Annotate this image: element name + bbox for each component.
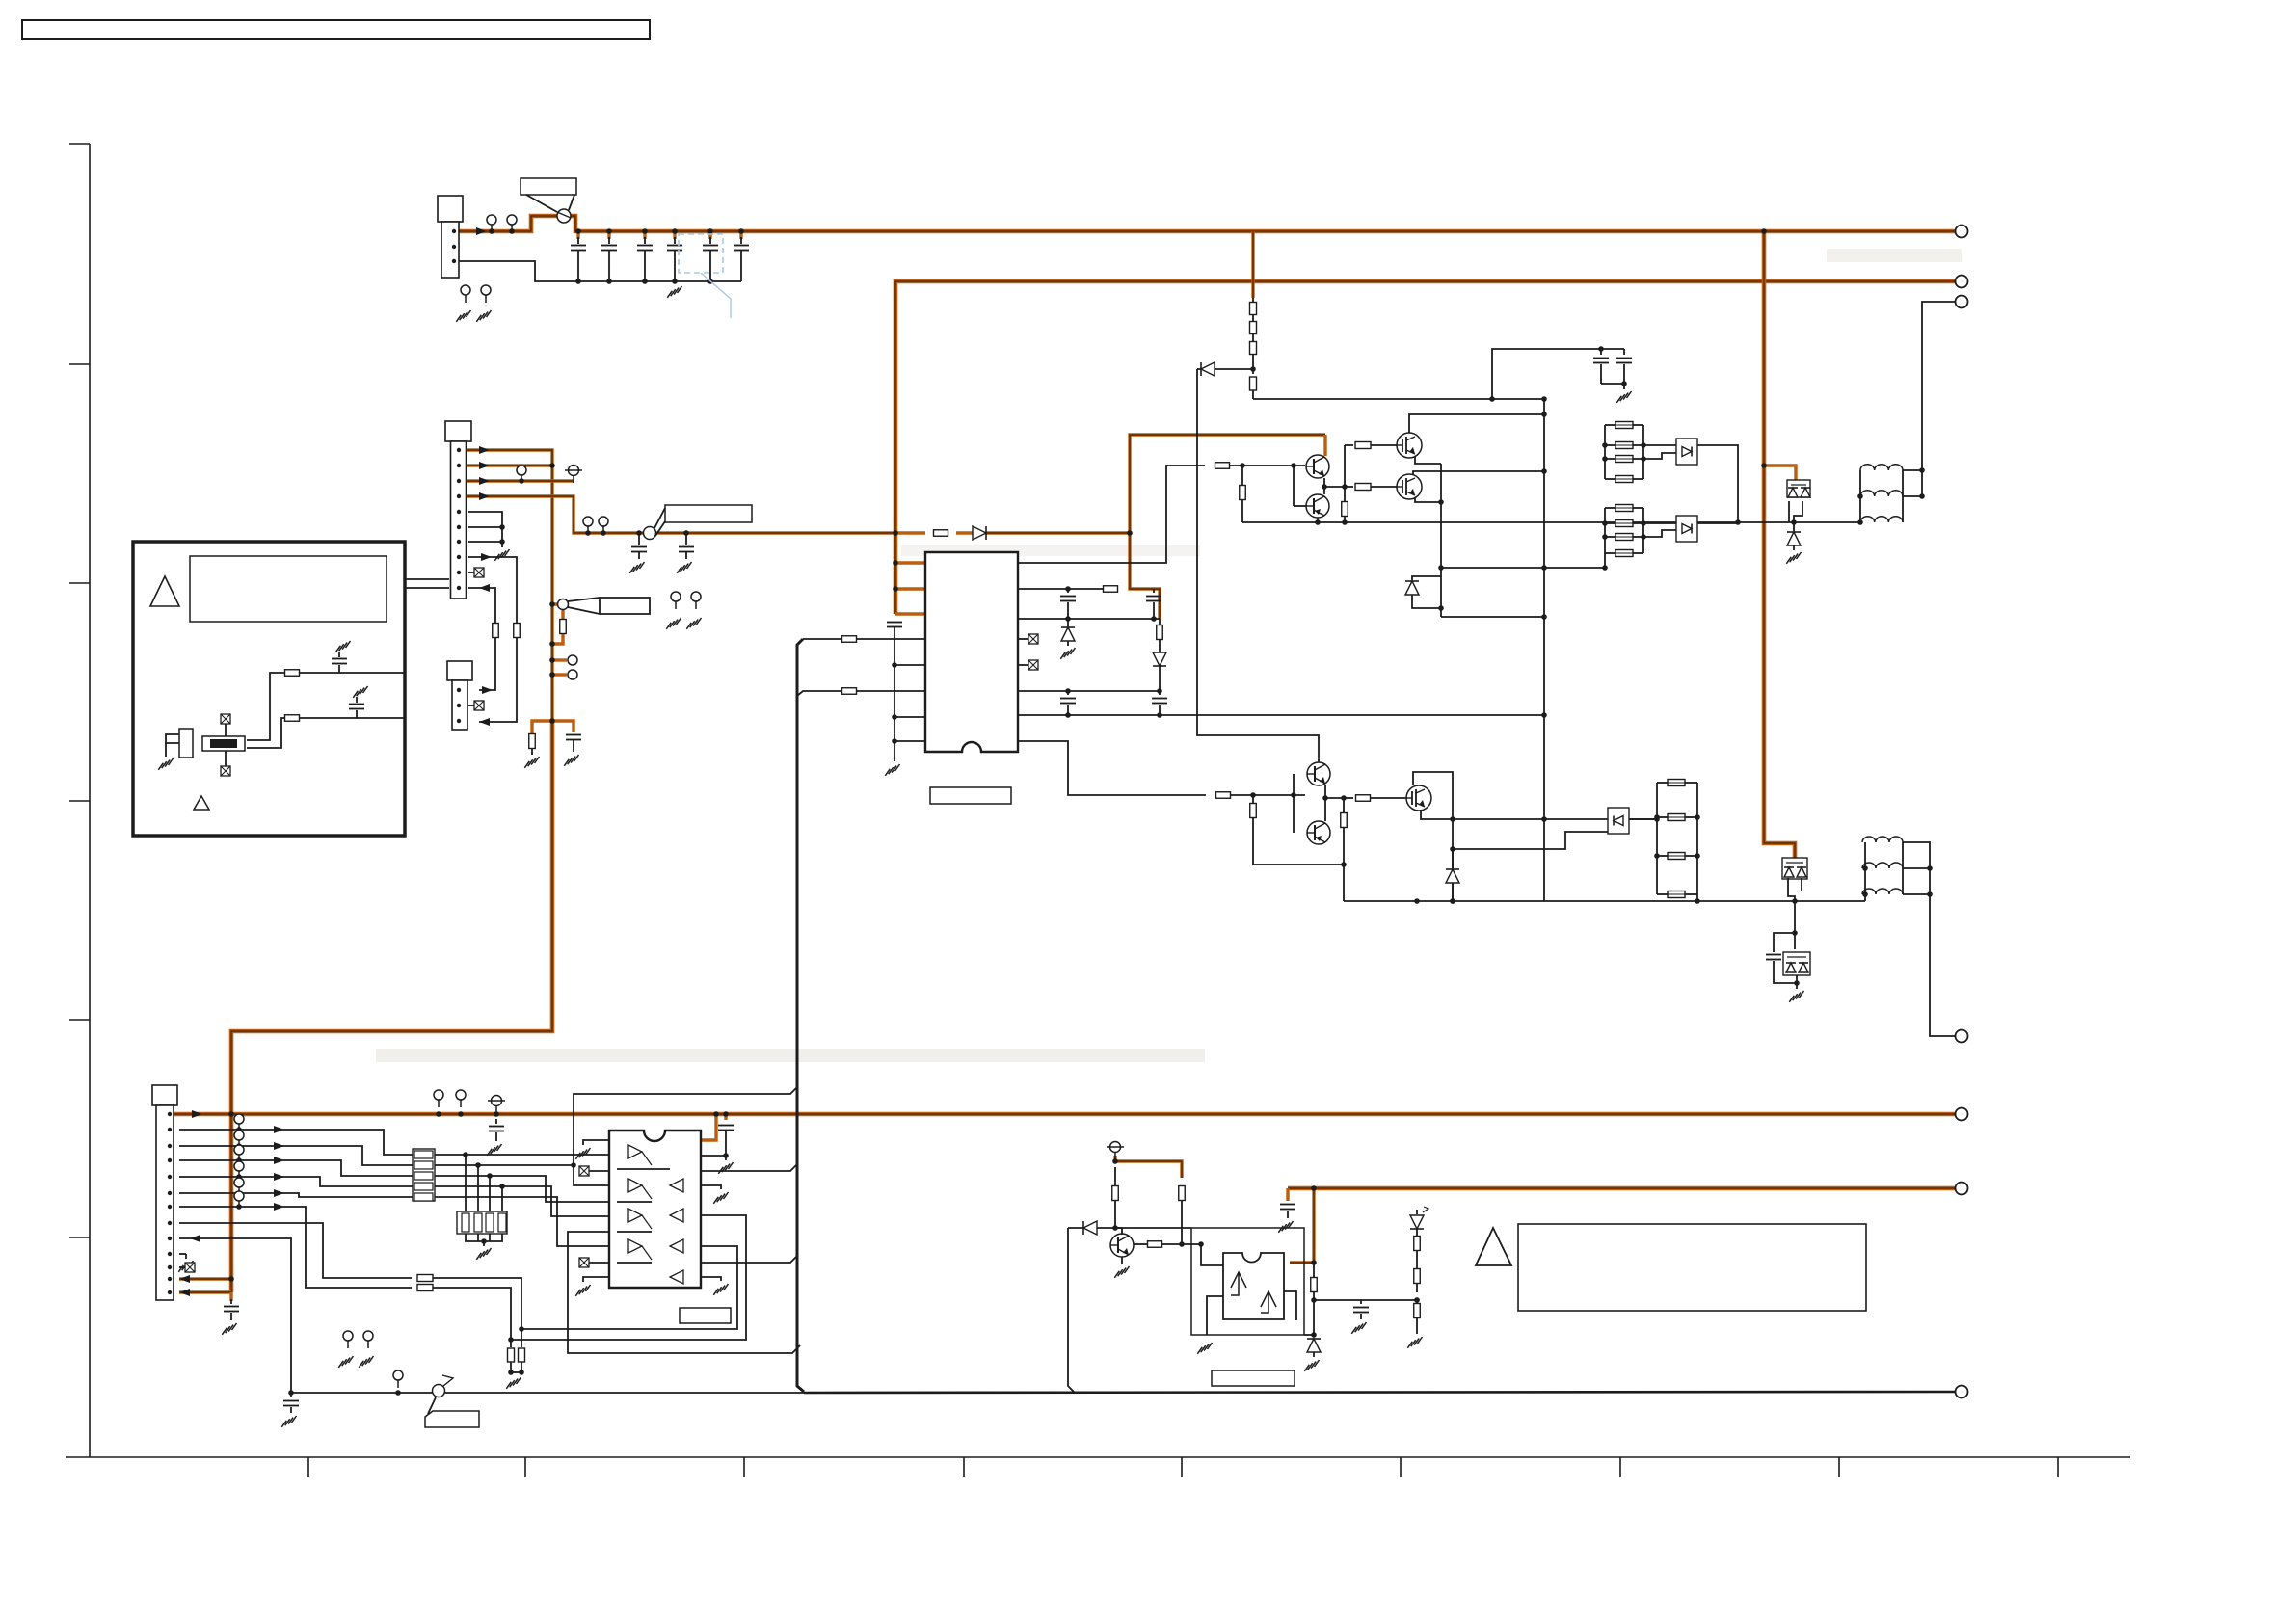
- wire opto3 out: [1629, 818, 1657, 820]
- resistor R203: [1215, 463, 1230, 469]
- coil T1-1: [1860, 465, 1903, 470]
- wire CN3 data1: [179, 1130, 413, 1155]
- gate rails: [617, 1168, 670, 1170]
- dot T2 L2: [1862, 891, 1868, 897]
- test point TP101: [487, 215, 496, 225]
- wire outer zener: [1304, 1334, 1314, 1336]
- pin CN2: [457, 704, 461, 707]
- wire wrap B: [701, 1164, 797, 1171]
- snubber2 R y543: [1605, 522, 1615, 524]
- dot junction x573 y483: [549, 463, 555, 468]
- wire snub to opto1: [1643, 444, 1676, 446]
- ground gnd bus: [667, 286, 681, 298]
- wire base2 b: [1231, 794, 1305, 796]
- arrow into pin10: [479, 584, 490, 592]
- arrow into pin9: [190, 1235, 200, 1242]
- dot out1199: [723, 1153, 729, 1158]
- transistor Q5: [1307, 762, 1330, 785]
- arrow data6: [274, 1203, 284, 1211]
- terminal black out: [1956, 296, 1968, 308]
- diode D202: [1067, 619, 1069, 626]
- pin CN1t-3: [452, 259, 456, 263]
- terminal T2 pin: [1956, 1030, 1968, 1043]
- igbt Q3: [1397, 433, 1422, 458]
- transistor Q2: [1306, 494, 1329, 518]
- dot T1 L: [1857, 493, 1863, 499]
- arrow sym U4a: [1231, 1272, 1246, 1295]
- capacitor C203: [1153, 589, 1155, 593]
- wire rn1 out4: [435, 1196, 540, 1198]
- dot pulldown: [499, 1184, 505, 1189]
- dot TPB403: [494, 1111, 499, 1117]
- wire q8 col: [1115, 1227, 1122, 1229]
- dot wrapF join: [519, 1326, 524, 1332]
- snubber2 dot R543: [1641, 520, 1646, 526]
- ground R402: [506, 1377, 521, 1389]
- border tick left: [69, 1237, 90, 1238]
- wire osc net1: [247, 673, 405, 740]
- resistor R304: [1252, 369, 1254, 374]
- resistor R110: [934, 530, 948, 537]
- test point TP105: [517, 466, 526, 475]
- wire igbt2 collector: [1413, 471, 1544, 474]
- dot cap pair: [1598, 346, 1604, 352]
- wire U1 pin744: [894, 716, 925, 718]
- snubber3 R y888: [1657, 855, 1668, 857]
- long vertical x1602: [1543, 399, 1545, 901]
- dot chain out: [1541, 396, 1547, 402]
- arrow data5: [274, 1189, 284, 1197]
- capacitor C122: [356, 710, 358, 718]
- wire CN1 pin10 net: [468, 588, 495, 690]
- wire T2 out: [1903, 842, 1956, 1036]
- pin CN1-1: [457, 448, 461, 452]
- resistor R406v: [1114, 1167, 1116, 1185]
- label F2 funnel: [654, 508, 665, 528]
- wire bottom net thick: [804, 1392, 1956, 1393]
- resistor R408: [1414, 1269, 1421, 1284]
- wire rn1 out1: [435, 1164, 540, 1166]
- test point TPc0: [234, 1114, 244, 1124]
- arrow CN1 orange pin: [479, 492, 490, 500]
- test point TPc3: [234, 1161, 244, 1171]
- capacitor C404: [290, 1393, 292, 1397]
- pin CN1t-1: [452, 229, 456, 233]
- ground CN3 pin10: [179, 1253, 186, 1255]
- dot y935 c: [1695, 898, 1700, 904]
- capacitor C301: [1600, 349, 1602, 355]
- snubber3 dot L848: [1654, 814, 1660, 820]
- coil T2-3: [1862, 889, 1903, 894]
- ground TP104: [476, 310, 491, 322]
- ic U2: [609, 1131, 701, 1288]
- border tick bottom: [2057, 1457, 2059, 1477]
- wire emitters q1q2: [1324, 478, 1345, 487]
- ghost text band mid: [901, 545, 1200, 556]
- ground D401: [1304, 1360, 1319, 1371]
- dot opto3 rail: [1654, 816, 1660, 822]
- resistor R401: [417, 1275, 433, 1282]
- test point TP109: [568, 655, 577, 665]
- wire IC supply stub1: [895, 561, 925, 564]
- dual diode D303: [1787, 480, 1810, 497]
- wire CN3 data5: [179, 1193, 413, 1197]
- label box warning: [1518, 1224, 1866, 1311]
- gate tri L 0: [670, 1179, 683, 1192]
- label box inside: [190, 556, 387, 622]
- wire wrap F: [521, 1246, 737, 1329]
- dot C101 bottom: [575, 279, 581, 284]
- gate tri L 1: [670, 1209, 683, 1222]
- wire igbt1 collector: [1409, 414, 1544, 433]
- dot fb: [1414, 1297, 1420, 1303]
- dot TP102: [509, 228, 515, 234]
- dot cap branch: [1489, 396, 1495, 402]
- ground TP111: [666, 618, 681, 629]
- ghost text band top-right: [1827, 249, 1962, 262]
- terminal orange B: [1956, 1108, 1968, 1121]
- wire CN1 pin2 orange: [459, 464, 552, 466]
- dot fuse cap1: [636, 530, 642, 536]
- pin CN1-10: [457, 586, 461, 590]
- wire diode line: [1068, 1227, 1191, 1229]
- capacitor C302: [1623, 349, 1625, 355]
- wire IC supply stub3: [895, 612, 925, 615]
- xbox CN1 pin9: [468, 572, 474, 573]
- rn2 element: [498, 1213, 506, 1232]
- test point TP401: [434, 1090, 443, 1100]
- pin CN3: [168, 1191, 172, 1195]
- wire U2 out1230 gnd: [701, 1185, 721, 1189]
- pin CN1-7: [457, 540, 461, 544]
- wire CN1t pin3 gnd bus: [459, 261, 741, 281]
- dot orange p12: [228, 1276, 234, 1282]
- ground TP112: [686, 618, 701, 629]
- dot C201 a: [892, 662, 897, 668]
- wire U1 717 right: [1018, 690, 1160, 692]
- xbox osc top: [221, 714, 230, 724]
- rn2 element: [462, 1213, 469, 1232]
- border tick bottom: [307, 1457, 309, 1477]
- snubber R y476: [1605, 458, 1615, 460]
- pin CN2: [457, 719, 461, 723]
- dot TPc3: [236, 1174, 242, 1180]
- ground C107: [629, 562, 644, 573]
- wire T2 out2: [1903, 867, 1930, 869]
- dot TP402: [458, 1111, 464, 1117]
- resistor R109: [493, 624, 499, 638]
- resistor R409: [1416, 1300, 1418, 1303]
- resistor R301: [1250, 303, 1257, 315]
- igbt Q7: [1406, 785, 1431, 811]
- gate tri R 0: [628, 1145, 642, 1158]
- arrow data4: [274, 1173, 284, 1181]
- transformer T2 rail L: [1864, 842, 1866, 901]
- transformer T1 rail L: [1859, 470, 1861, 522]
- wire dd2 to cluster: [1794, 901, 1796, 949]
- wire CN3 pin12 orange: [179, 1277, 231, 1280]
- rn1 element: [414, 1183, 433, 1190]
- test point TPB403: [492, 1096, 502, 1106]
- snubber dot R462: [1641, 442, 1646, 448]
- dot 742b: [1157, 712, 1162, 718]
- capacitor C121: [338, 665, 340, 673]
- capacitor C205: [1159, 691, 1161, 695]
- wire wrap A: [574, 1087, 797, 1185]
- ic sub U3: [179, 729, 193, 758]
- gate tri R 3: [628, 1239, 642, 1253]
- wire CN3 data6: [179, 1207, 412, 1288]
- resistor R406: [417, 1285, 433, 1291]
- transistor Q8: [1110, 1234, 1134, 1257]
- border tick bottom: [1400, 1457, 1402, 1477]
- dot y589 end: [1602, 565, 1608, 571]
- capacitor C108: [685, 533, 687, 545]
- resistor R404: [1148, 1241, 1162, 1248]
- wire y935 long: [1344, 900, 1865, 902]
- igbt Q4: [1397, 474, 1422, 499]
- dot y640: [1541, 614, 1547, 620]
- ground C109: [564, 755, 578, 766]
- dot tp orange: [1112, 1158, 1118, 1164]
- dot C102 bottom: [606, 279, 612, 284]
- wire U4 in: [1201, 1244, 1223, 1265]
- pin CN1-9: [457, 571, 461, 574]
- pin CN2: [457, 688, 461, 692]
- snubber dot L462: [1602, 442, 1608, 448]
- dot reg low: [1311, 1332, 1317, 1338]
- wire hexIC feed orange: [701, 1114, 716, 1140]
- rn2 element: [486, 1213, 494, 1232]
- wire rn1 out2: [435, 1175, 540, 1177]
- dot base1 r: [1240, 463, 1245, 468]
- border tick bottom: [743, 1457, 745, 1477]
- ground C201: [885, 764, 899, 776]
- dot C105 bottom: [707, 279, 713, 284]
- ground C401: [222, 1323, 236, 1335]
- wire cap branch: [1492, 349, 1624, 399]
- gate zig 0: [642, 1152, 652, 1165]
- snubber2 R y557: [1605, 536, 1615, 538]
- dot igbt3 881: [1450, 846, 1455, 852]
- dot pulldown: [487, 1173, 493, 1179]
- arrow data2: [274, 1142, 284, 1150]
- dot C104 bottom: [672, 279, 678, 284]
- pin CN3: [168, 1175, 172, 1179]
- border tick bottom: [1181, 1457, 1183, 1477]
- wire dd1 down: [1788, 501, 1790, 522]
- dot igbt2 col: [1541, 468, 1547, 474]
- test point TP112: [691, 592, 701, 601]
- dot y935 a: [1414, 898, 1420, 904]
- wire U1 base1 net: [1018, 466, 1205, 563]
- wire rail 15V orange: [1288, 1186, 1956, 1191]
- ground cap pair: [1623, 384, 1625, 389]
- zener D401: [1307, 1339, 1321, 1352]
- dot reg mid: [1311, 1297, 1317, 1303]
- resistor R122: [285, 715, 300, 722]
- connector CN1-top: [438, 196, 463, 222]
- wire CN3 pin9: [179, 1238, 291, 1393]
- dot emit out2: [1341, 795, 1347, 801]
- wire branch left gnd orange: [532, 721, 552, 733]
- resistor R307: [1342, 502, 1348, 517]
- diode D301: [1215, 368, 1253, 370]
- dot T1 o2: [1919, 493, 1925, 499]
- vertical x1395: [1344, 445, 1346, 522]
- snubber3 R y848: [1657, 816, 1668, 818]
- wire D301 down: [1197, 369, 1319, 762]
- wire opto2 out: [1697, 522, 1738, 524]
- test point TP406: [363, 1331, 373, 1341]
- dot C403: [723, 1111, 729, 1117]
- resistor R308: [1355, 442, 1371, 449]
- arrow CN1 orange pin: [479, 446, 490, 454]
- wire bases q1q2: [1293, 466, 1295, 506]
- arrow CN1 orange pin: [479, 477, 490, 485]
- wire opto1 out: [1697, 445, 1738, 522]
- dot branch: [549, 718, 555, 724]
- resistor R111: [560, 620, 567, 634]
- dot 717b: [1157, 688, 1162, 694]
- ground C403: [725, 1156, 727, 1160]
- ground C406: [1351, 1322, 1366, 1334]
- snubber2 dot R557: [1641, 534, 1646, 540]
- ic U4 shunt: [1223, 1253, 1284, 1319]
- test point TP103: [461, 285, 470, 295]
- wire U2 out1199: [701, 1155, 726, 1157]
- wire opto feed orange: [1290, 1188, 1314, 1263]
- snubber R y441: [1605, 424, 1615, 426]
- capacitor C406: [1360, 1300, 1362, 1304]
- connector CN3: [152, 1085, 177, 1105]
- dual diode D307: [1783, 952, 1810, 975]
- xbox U2 in3: [579, 1166, 589, 1176]
- crystal X1: [202, 736, 245, 751]
- test point TPc4: [234, 1178, 244, 1187]
- wire orange x1830: [1764, 231, 1795, 858]
- dot bootstrap junction: [1127, 530, 1133, 536]
- resistor R305: [1241, 466, 1243, 485]
- pin CN3: [168, 1158, 172, 1162]
- wire CN3 data3: [179, 1160, 413, 1176]
- pin CN3: [168, 1112, 172, 1116]
- label box F1 funnel: [526, 195, 557, 212]
- arrow sym U4b: [1261, 1291, 1276, 1313]
- dot q8 base: [1179, 1241, 1185, 1247]
- snubber rail R3: [1696, 783, 1698, 901]
- wire U1 742 long: [1018, 714, 1544, 716]
- wire U1 pin690: [894, 664, 925, 666]
- snubber dot L476: [1602, 456, 1608, 462]
- pin CN3: [168, 1277, 172, 1281]
- resistor R303: [1250, 342, 1257, 355]
- pin CN3: [168, 1252, 172, 1256]
- wire y881: [1453, 832, 1608, 849]
- gate tri L 3: [670, 1270, 683, 1284]
- border left vertical: [89, 144, 91, 1457]
- wire gate2 feed: [1345, 486, 1353, 488]
- dot pulldown: [475, 1162, 481, 1168]
- ground led chain: [1407, 1337, 1422, 1348]
- snubber3 dot R848: [1695, 814, 1700, 820]
- dot TP107: [585, 530, 591, 536]
- pin CN3: [168, 1128, 172, 1131]
- ground C108: [677, 562, 691, 573]
- capacitor C403: [724, 1114, 727, 1120]
- wire wrap E: [511, 1215, 746, 1340]
- wire q2 collector: [1317, 518, 1319, 522]
- wire dropper orange x1300: [1251, 231, 1254, 298]
- snubber rail R1: [1642, 425, 1644, 479]
- dot orange branch: [1761, 463, 1767, 468]
- dot T2 b: [1927, 891, 1933, 897]
- resistor R302: [1250, 322, 1257, 334]
- resistor R206: [1159, 619, 1161, 625]
- dot T2 a: [1927, 865, 1933, 871]
- dot 642a: [1065, 616, 1071, 622]
- capacitor C201: [887, 622, 902, 624]
- dot emit join2: [1322, 795, 1328, 801]
- resistor R201: [842, 636, 857, 643]
- wire U1 pin663: [803, 638, 925, 640]
- dot pins57: [499, 539, 505, 545]
- thermal fuse F3: [433, 1385, 445, 1397]
- gate zig 3: [642, 1246, 652, 1260]
- resistor R205: [1216, 792, 1231, 799]
- wire reg feedback: [1314, 1299, 1417, 1301]
- resistor R310: [1344, 797, 1353, 799]
- dot U1 stub1: [893, 560, 898, 566]
- snubber R y497: [1605, 478, 1615, 480]
- wire CN1 pin8 net: [468, 557, 517, 722]
- dot 742a: [1065, 712, 1071, 718]
- dot hex feed: [713, 1111, 719, 1117]
- wire terminal3 black: [1922, 302, 1956, 496]
- dot TPc4: [236, 1190, 242, 1196]
- rn1 element: [414, 1151, 433, 1158]
- resistor R306: [1355, 484, 1371, 491]
- warning triangle 1: [150, 576, 179, 606]
- wire rn out2: [540, 1164, 574, 1166]
- dot 742c: [1541, 712, 1547, 718]
- wire Q1 collector feed orange: [1323, 435, 1326, 456]
- wire U2 bottom gnd: [583, 1277, 609, 1282]
- wire probe branch orange2: [552, 634, 563, 644]
- dot bottom x302: [288, 1390, 294, 1396]
- wire CN3 pin8: [179, 1223, 412, 1278]
- wire IC supply stub2: [895, 587, 925, 590]
- opto D1 box: [1676, 439, 1697, 465]
- dot e2: [1438, 499, 1444, 505]
- capacitor C105: [708, 231, 711, 239]
- wire U1 611: [1018, 588, 1118, 590]
- arrow CN3 pin1: [192, 1110, 202, 1118]
- opto D2 box: [1676, 516, 1697, 542]
- probe P1 circle: [558, 599, 569, 610]
- pin CN3: [168, 1205, 172, 1209]
- zener D305: [1452, 849, 1454, 868]
- wire U4 out: [1284, 1291, 1296, 1320]
- diode D101: [973, 526, 986, 540]
- wire osc left: [166, 734, 179, 743]
- dot 642b: [1151, 616, 1157, 622]
- capacitor C202: [1067, 589, 1069, 593]
- dot probe bottom: [549, 641, 555, 647]
- wire rail2 orange: [895, 281, 1956, 614]
- snubber2 dot L543: [1602, 520, 1608, 526]
- xbox CN3 pin11: [179, 1266, 185, 1268]
